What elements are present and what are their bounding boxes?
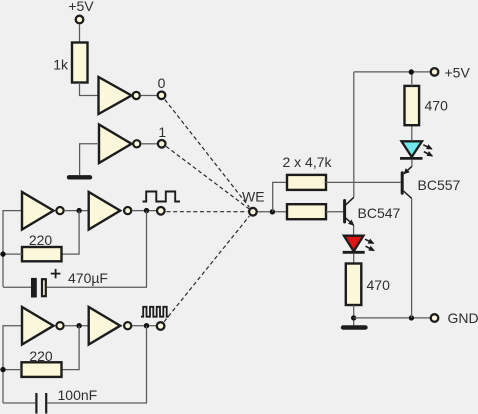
wire R7 to D2 — [411, 125, 413, 141]
resistor R1 1k — [72, 43, 88, 83]
wire BC557 emitter up to D2 — [411, 160, 413, 167]
wire IC1b output — [141, 143, 157, 145]
wire WE to resistors — [258, 211, 287, 213]
svg-text:WE: WE — [242, 189, 265, 205]
wire D1 to R6 — [353, 254, 355, 265]
wire C1 to osc1 output — [47, 211, 147, 288]
node junction osc2 feedback — [76, 323, 81, 328]
wire IC1e to IC1f — [64, 325, 89, 327]
wire R3 left to rail — [3, 369, 22, 371]
dashed select line from node 0 to WE — [165, 100, 250, 208]
svg-text:470: 470 — [425, 98, 449, 114]
+5V terminal (right) — [431, 68, 439, 76]
wire osc1 input rail — [3, 211, 22, 287]
svg-text:100nF: 100nF — [58, 387, 98, 403]
GND terminal — [431, 314, 439, 322]
resistor R2 220 — [22, 247, 62, 261]
node junction osc1 output — [144, 208, 149, 213]
inverter IC1c — [22, 192, 54, 230]
svg-text:2 x 4,7k: 2 x 4,7k — [282, 154, 332, 170]
capacitor C1 470uF (electrolytic) — [31, 278, 37, 298]
svg-text:1k: 1k — [53, 57, 69, 73]
resistor R4 4.7k (top) — [287, 175, 326, 190]
svg-text:+5V: +5V — [445, 65, 471, 81]
node junction BC557 collector-ground — [409, 315, 414, 320]
svg-text:470: 470 — [367, 277, 391, 293]
ground (under IC1b) — [69, 175, 90, 179]
inverter IC1d — [89, 192, 121, 230]
wire C2 to osc2 output — [47, 326, 146, 403]
wire osc1 feedback down — [62, 211, 80, 255]
inverter IC1e — [22, 307, 54, 345]
wire R5 to BC547 base — [326, 211, 343, 213]
wire R1 to inverter IC1a input — [80, 83, 99, 96]
wire BC547 emitter down — [353, 225, 355, 235]
node junction WE branch — [270, 209, 275, 214]
wire BC547 collector to +5V rail — [353, 72, 355, 197]
svg-text:0: 0 — [158, 75, 166, 91]
wire rail to C1 — [3, 286, 31, 288]
wire osc2 input rail — [3, 326, 22, 403]
inverter IC1a — [99, 77, 132, 114]
LED D1 red — [344, 236, 364, 252]
svg-text:220: 220 — [29, 348, 53, 364]
dashed select line from osc1 to WE — [167, 211, 248, 213]
capacitor C2 100nF — [3, 402, 35, 404]
svg-text:470µF: 470µF — [68, 270, 108, 286]
node junction ground — [351, 315, 356, 320]
node junction osc2 output — [144, 323, 149, 328]
svg-text:GND: GND — [448, 310, 478, 326]
resistor R3 220 — [22, 362, 62, 377]
transistor Q2 BC557 — [401, 173, 404, 193]
resistor R6 470 — [346, 264, 362, 306]
inverter IC1b — [99, 125, 132, 164]
wire R4 to BC557 base — [326, 181, 401, 183]
wire osc2 feedback down — [62, 326, 80, 370]
node junction rail-R7 — [409, 69, 414, 74]
svg-text:1: 1 — [158, 124, 166, 140]
resistor R5 4.7k (bottom) — [287, 204, 326, 219]
svg-text:BC557: BC557 — [418, 177, 461, 193]
svg-text:+5V: +5V — [68, 0, 94, 14]
resistor R7 470 — [405, 86, 420, 125]
wire rail to R7 — [411, 72, 413, 86]
transistor Q1 BC547 — [343, 201, 346, 223]
wire branch up to R4 — [273, 182, 287, 211]
wire +5V rail (top right) — [354, 71, 431, 73]
wire IC1d output — [132, 210, 156, 212]
wire IC1f output — [132, 325, 156, 327]
square wave symbol (slow) — [143, 192, 181, 202]
ground (under R6) — [343, 325, 366, 329]
svg-text:BC547: BC547 — [358, 205, 401, 221]
wire IC1b input to ground — [80, 144, 99, 175]
wire R2 left to rail — [3, 253, 22, 255]
wire R6 to ground — [353, 305, 355, 325]
wire IC1c to IC1d — [64, 210, 89, 212]
node osc2 output terminal — [157, 322, 165, 330]
node junction rail-R3 — [0, 367, 5, 372]
svg-text:220: 220 — [29, 232, 53, 248]
node junction rail-R2 — [0, 251, 5, 256]
node junction osc1 feedback — [76, 208, 81, 213]
square wave symbol (fast) — [141, 307, 169, 317]
dashed select line from node 1 to WE — [166, 146, 249, 208]
LED D2 cyan — [402, 141, 423, 157]
wire IC1a output — [141, 95, 158, 97]
dashed select line from osc2 to WE — [164, 216, 249, 322]
inverter IC1f — [89, 307, 121, 345]
node osc1 output terminal — [157, 207, 165, 215]
wire BC557 collector down to ground — [411, 198, 413, 318]
wire ground rail to GND terminal — [354, 317, 430, 319]
wire +5V to R1 — [79, 24, 81, 43]
